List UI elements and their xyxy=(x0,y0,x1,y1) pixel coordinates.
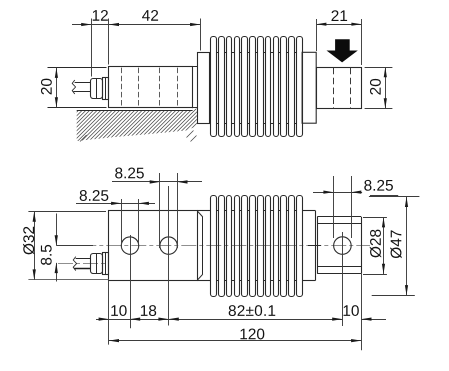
bellows fins (side view) xyxy=(211,37,303,137)
cable centerline (plan view) xyxy=(58,263,109,265)
dimension Ø32 (body width) xyxy=(23,211,109,280)
dimension 10 right xyxy=(344,305,386,321)
load cell body (side view) xyxy=(109,67,193,108)
body (plan view) xyxy=(109,211,198,281)
cable gland (plan view) xyxy=(91,253,109,275)
cable (side view) xyxy=(73,83,91,92)
dimension 10 left xyxy=(96,305,342,321)
bellows right end plate (plan view) xyxy=(302,211,321,281)
bellows fins (plan view) xyxy=(211,196,303,297)
bellows right end plate (side view) xyxy=(302,52,316,123)
support block (wall mount, broken view) xyxy=(48,68,107,108)
dimension 18 xyxy=(130,305,169,321)
dimension 12 (gland to body face) xyxy=(72,10,200,77)
cable (plan view) xyxy=(74,259,90,269)
hole1 centerline vertical xyxy=(130,235,132,328)
dimension Ø28 (block width) xyxy=(363,217,387,274)
mounting hole 2 (plan view) xyxy=(160,237,177,254)
bottom extension lines xyxy=(109,274,362,351)
hidden lines in right end block (dashed) xyxy=(334,68,351,108)
load hole right (plan view) xyxy=(334,237,352,255)
hole2 centerline vertical xyxy=(168,186,170,326)
chamfer to left bellows plate (plan view) xyxy=(198,212,203,280)
cable break symbol (plan view) xyxy=(73,257,76,271)
cable break symbol (side view) xyxy=(72,80,75,94)
bellows root webs (side view) xyxy=(216,53,296,124)
bellows left end plate (plan view) xyxy=(198,211,211,281)
right end block (side view) xyxy=(317,68,362,109)
hidden hole lines in body (dashed) xyxy=(122,68,178,107)
dimension 120 (overall) xyxy=(109,329,361,343)
dimension 82 ±0.1 xyxy=(169,305,343,321)
dimension 8.5 (cable offset) xyxy=(41,214,93,282)
dimension 8.25 hole2 (tangent lines) xyxy=(112,168,202,248)
neck between body and bellows plate (side view) xyxy=(193,67,198,108)
dimension 8.25 hole1 (tangent lines) xyxy=(76,190,155,248)
hatched wall section below body xyxy=(40,105,388,145)
dimension 8.25 right hole (tangent lines) xyxy=(313,176,398,238)
dimension 21 (right block length) xyxy=(316,10,361,65)
load direction arrow (solid) xyxy=(327,39,358,62)
bellows root webs (plan view) xyxy=(216,211,296,281)
cable gland (side view) xyxy=(91,77,109,99)
dimension 42 (body length) xyxy=(142,10,200,51)
dimension Ø47 (bellows diameter) xyxy=(369,197,420,296)
bellows left end plate (side view) xyxy=(198,53,210,124)
main horizontal centerline (plan view) xyxy=(56,245,370,247)
dimension 20 left (support height) xyxy=(41,68,58,108)
mounting hole 1 (plan view) xyxy=(121,237,138,254)
right hole centerline vertical xyxy=(342,232,344,326)
right end block (plan view) xyxy=(317,217,361,274)
dimension 20 right (block height) xyxy=(365,67,393,108)
